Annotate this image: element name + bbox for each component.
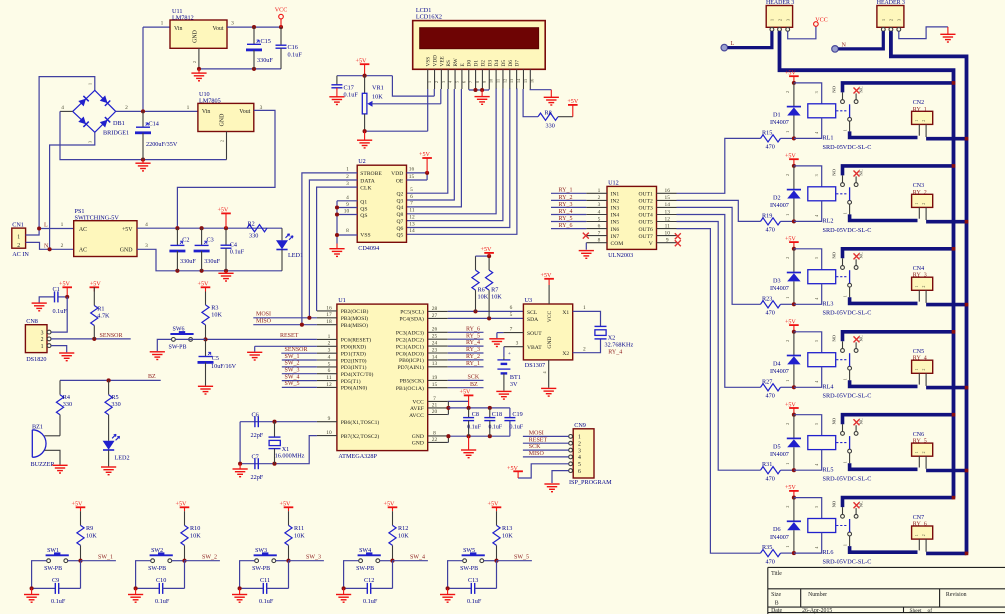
wire LCD pin15 to R8: [523, 89, 538, 117]
junction dots decoupling top: [467, 406, 471, 410]
svg-text:CN3: CN3: [913, 183, 924, 189]
svg-text:3: 3: [578, 448, 581, 454]
svg-text:Revision: Revision: [946, 592, 967, 598]
svg-text:4: 4: [578, 455, 581, 461]
capacitor C11 0.1uF: [240, 587, 264, 589]
svg-text:IN4007: IN4007: [770, 451, 789, 458]
svg-text:470: 470: [766, 393, 775, 400]
svg-text:U2: U2: [358, 158, 366, 165]
net label SW_1 wire: [282, 359, 317, 361]
svg-text:1: 1: [843, 129, 848, 131]
CN9 pin 1: [569, 435, 573, 439]
node L junction: [37, 226, 41, 230]
push button SW5 SW-PB: [462, 552, 485, 562]
svg-text:SW_4: SW_4: [410, 555, 425, 561]
wire coil top RL4: [794, 332, 822, 353]
net label RESET wire at CN9: [523, 442, 569, 444]
svg-text:5: 5: [410, 187, 413, 193]
wire U3 VBAT to battery: [504, 346, 524, 348]
capacitor C1 0.1uF: [58, 296, 67, 298]
svg-text:STROBE: STROBE: [360, 171, 382, 177]
wire CN1 pin1 to PS1 AC L: [26, 229, 74, 236]
svg-text:+5V: +5V: [785, 319, 796, 325]
LCD pin 14 stub: [516, 69, 518, 89]
svg-text:PB3(MOSI): PB3(MOSI): [341, 315, 368, 322]
svg-text:3: 3: [786, 19, 791, 21]
svg-text:RY_4: RY_4: [559, 209, 573, 215]
svg-text:11: 11: [409, 208, 414, 214]
wire VR1 top to LCD VDD: [392, 76, 434, 96]
thick wire CN3 pin2 to N bus: [926, 220, 966, 224]
buzzer BZ1 BUZZER: [32, 430, 46, 458]
net label SENSOR wire at U1: [281, 352, 317, 354]
junction dot RL6 coil top: [792, 496, 796, 500]
thick wire RL2 common to CN3: [850, 214, 918, 220]
thick wire header2 pin2 to N bus: [891, 31, 967, 553]
net label SW_2 wire: [282, 366, 317, 368]
bus junction N RL3: [965, 303, 969, 307]
svg-text:2: 2: [220, 140, 225, 142]
U3 GND pin stub: [548, 360, 550, 388]
wire header2 pin3 to ground: [899, 27, 948, 39]
svg-text:32.768KHz: 32.768KHz: [605, 342, 634, 349]
svg-text:BRIDGE1: BRIDGE1: [103, 130, 129, 137]
svg-text:CN8: CN8: [26, 318, 38, 325]
pin 2 stub U10 GND: [226, 132, 228, 160]
svg-text:4: 4: [145, 222, 148, 228]
capacitor C19 0.1uF: [509, 408, 511, 418]
svg-text:D0: D0: [467, 60, 473, 67]
svg-text:Title: Title: [771, 571, 782, 577]
ground under C17: [336, 88, 338, 97]
resistor R5 330: [108, 380, 110, 394]
svg-text:C10: C10: [156, 577, 166, 584]
wire CN1 pin2 to PS1 AC N: [26, 242, 74, 249]
svg-text:0.1uF: 0.1uF: [53, 308, 68, 315]
LCD pin 3 stub: [440, 69, 442, 89]
svg-text:+5V: +5V: [785, 154, 796, 160]
svg-text:2: 2: [434, 81, 439, 83]
relay RL4 NC contact: [854, 349, 858, 353]
power +5V above VR1: [360, 64, 370, 76]
wire LCD D7 to U2 Q5: [407, 89, 517, 234]
svg-text:330: 330: [249, 232, 258, 239]
svg-text:SCL: SCL: [527, 310, 538, 316]
capacitor C15 330uF: [253, 27, 255, 44]
svg-text:D4: D4: [494, 60, 500, 67]
capacitor C5 10uF/16V: [205, 339, 207, 356]
svg-text:RY_3: RY_3: [913, 273, 927, 279]
connector HEADER 3 left: [766, 6, 792, 28]
svg-text:DS1307: DS1307: [525, 362, 545, 369]
bus junction N RL6: [965, 552, 969, 556]
svg-text:PC0(ADC0): PC0(ADC0): [396, 350, 424, 357]
svg-text:22pF: 22pF: [251, 432, 264, 439]
svg-text:SRD-05VDC-SL-C: SRD-05VDC-SL-C: [823, 144, 872, 151]
connector HEADER 3 right: [877, 6, 904, 28]
bus junction N RL2: [965, 220, 969, 224]
svg-text:10uF/16V: 10uF/16V: [211, 363, 237, 370]
wire SW6 to ground: [157, 339, 171, 351]
relay RL1 NC contact: [854, 100, 858, 104]
no-connect X at RL3 NC: [854, 253, 860, 259]
svg-text:D7: D7: [515, 60, 521, 67]
svg-text:PB4(MISO): PB4(MISO): [341, 322, 368, 329]
no-connect X at RL4 NC: [854, 336, 860, 342]
svg-text:+5V: +5V: [217, 208, 228, 214]
resistor R7 10K pullup: [488, 256, 490, 270]
wire bridge top to L rail: [39, 77, 95, 229]
wire U2 STROBE to U1 PB4: [302, 173, 357, 325]
svg-text:R23: R23: [762, 295, 772, 302]
power +5V at relay RL1: [789, 76, 799, 83]
connector CN3 RY_2: [912, 194, 933, 207]
wire +5V rail from PS1 pin4: [137, 227, 247, 229]
power +5V at R12: [388, 507, 398, 511]
junction dot SCL pullup: [473, 309, 477, 313]
connector CN4 RY_3: [912, 277, 933, 290]
junction dot C10 ground: [134, 586, 138, 590]
crystal X2 32.768KHz: [595, 325, 607, 327]
svg-text:2: 2: [922, 120, 926, 122]
RTC U3 DS1307: [523, 304, 572, 360]
CN9 pin 2: [569, 441, 573, 445]
resistor R11 10K: [288, 511, 290, 525]
net label SW_3 wire: [282, 373, 317, 375]
svg-text:SWITCHING-5V: SWITCHING-5V: [75, 215, 120, 222]
svg-text:5: 5: [578, 462, 581, 468]
wire OUT6 to relay 6: [677, 229, 761, 554]
bridge rectifier DB1 BRIDGE1: [73, 90, 116, 132]
svg-text:Q3: Q3: [396, 198, 403, 204]
wire LCD D5 to U2 Q7: [407, 89, 503, 221]
wire CN9 pin5 to +5V: [518, 464, 569, 478]
svg-text:Q8: Q8: [396, 212, 403, 218]
power +5V on rail: [221, 213, 231, 228]
power +5V at R8: [568, 105, 578, 117]
svg-text:Q7: Q7: [396, 219, 403, 225]
svg-text:RY_1: RY_1: [466, 361, 480, 367]
svg-text:C5: C5: [212, 355, 219, 362]
svg-text:22pF: 22pF: [251, 474, 264, 481]
svg-text:470: 470: [766, 227, 775, 234]
svg-text:+5V: +5V: [419, 152, 430, 158]
ground under LED2: [101, 467, 116, 475]
svg-text:0.1uF: 0.1uF: [467, 598, 482, 605]
junction dots decoupling bottom: [446, 434, 450, 438]
relay RL4 NO contact: [841, 349, 845, 353]
svg-text:PC6(RESET): PC6(RESET): [341, 337, 372, 344]
wire coil top RL3: [794, 249, 822, 270]
resistor R15 470: [761, 135, 781, 142]
diode D4 IN4007: [793, 332, 795, 356]
svg-text:AC: AC: [79, 248, 87, 254]
relay RL3 NO contact: [841, 266, 845, 270]
svg-text:IN5: IN5: [611, 220, 620, 226]
junction dot RL4 coil top: [792, 330, 796, 334]
svg-text:15: 15: [409, 174, 415, 180]
thick wire RL3 NO to L bus: [843, 249, 954, 258]
svg-text:R35: R35: [762, 544, 772, 551]
svg-text:SW_2: SW_2: [202, 555, 217, 561]
svg-text:PB0(ICP1): PB0(ICP1): [399, 357, 424, 364]
junction dots rectifier node: [141, 109, 145, 113]
relay RL2 common pole: [848, 200, 852, 204]
svg-text:4: 4: [346, 195, 349, 201]
thick wire RL4 NO to L bus: [843, 332, 954, 342]
svg-text:NO: NO: [832, 168, 837, 175]
svg-text:RW: RW: [453, 58, 459, 66]
crystal X1 16.000MHz: [274, 422, 276, 437]
svg-text:16.000MHz: 16.000MHz: [275, 453, 305, 460]
svg-text:0.1uF: 0.1uF: [51, 598, 66, 605]
junction dot reset node: [203, 337, 207, 341]
relay RL3 NC contact: [854, 266, 858, 270]
thick wire RL3 common to CN4: [850, 297, 918, 303]
svg-text:2: 2: [578, 441, 581, 447]
svg-text:VR1: VR1: [372, 84, 384, 91]
thick wire CN5 pin2 to N bus: [926, 386, 966, 390]
svg-text:PD7(AIN1): PD7(AIN1): [397, 364, 424, 371]
power VCC top-left: [279, 14, 284, 27]
wire OUT3 to relay 3: [677, 207, 761, 304]
svg-text:9: 9: [482, 81, 487, 83]
svg-text:GND: GND: [192, 29, 198, 43]
push button SW1 SW-PB: [46, 552, 69, 562]
capacitor C8 0.1uF: [468, 408, 470, 418]
junction dot X1 bottom: [272, 462, 276, 466]
net label SW_3 wire: [289, 560, 324, 562]
svg-text:VEE: VEE: [439, 56, 445, 66]
thick wire RL4 common to CN5: [850, 380, 918, 386]
svg-text:2: 2: [346, 174, 349, 180]
svg-text:4.7K: 4.7K: [97, 313, 110, 320]
wire U3 X2 to crystal X2: [573, 339, 601, 353]
svg-text:SW_1: SW_1: [285, 354, 300, 360]
svg-text:C2: C2: [182, 236, 189, 243]
svg-text:R13: R13: [502, 525, 512, 532]
wire U11 output: [227, 26, 281, 28]
junction dot RL2 coil bottom: [792, 219, 796, 223]
ground under C5: [198, 386, 213, 394]
svg-text:C6: C6: [252, 412, 259, 419]
svg-text:HEADER 3: HEADER 3: [877, 0, 905, 6]
LED1: [281, 228, 283, 240]
svg-text:PC5(SCL): PC5(SCL): [400, 309, 424, 316]
svg-text:SW-PB: SW-PB: [148, 566, 166, 572]
svg-text:SW_1: SW_1: [98, 555, 113, 561]
capacitor C17 0.1uF: [336, 76, 338, 85]
LCD pin 1 stub: [427, 69, 429, 89]
svg-text:ULN2003: ULN2003: [608, 252, 633, 259]
diode D5 IN4007: [793, 415, 795, 439]
svg-text:R1: R1: [97, 306, 104, 313]
svg-text:C16: C16: [288, 44, 298, 51]
svg-text:10K: 10K: [502, 532, 513, 539]
svg-text:10K: 10K: [86, 532, 97, 539]
svg-text:SDA: SDA: [527, 317, 538, 323]
svg-text:GND: GND: [547, 336, 553, 348]
svg-text:GND: GND: [120, 248, 134, 254]
svg-text:10: 10: [489, 79, 494, 83]
net label SCK wire: [448, 379, 484, 381]
svg-text:SW6: SW6: [173, 327, 185, 333]
svg-text:C13: C13: [468, 577, 478, 584]
thick wire RL5 NO to L bus: [843, 415, 954, 425]
junction dot X1 top: [272, 420, 276, 424]
microcontroller U1 ATMEGA328P: [337, 304, 428, 451]
net label RY_3 wire at U12: [551, 206, 586, 208]
wire U2 VDD OE to +5V: [407, 172, 428, 174]
thick wire CN6 pin2 to N bus: [926, 469, 966, 473]
svg-text:Vin: Vin: [202, 109, 211, 115]
svg-text:SW4: SW4: [359, 548, 371, 554]
svg-text:C14: C14: [149, 121, 159, 128]
svg-text:NO: NO: [832, 85, 837, 92]
svg-text:PD4(XTC/T0): PD4(XTC/T0): [341, 371, 374, 378]
svg-text:4: 4: [814, 547, 819, 549]
svg-text:PD1(TXD): PD1(TXD): [341, 351, 366, 358]
net label SENSOR wire at CN8: [51, 338, 131, 340]
svg-text:SW_3: SW_3: [285, 368, 300, 374]
svg-text:15: 15: [523, 79, 528, 83]
LCD pin 16 stub: [529, 69, 531, 89]
CN9 pin 5: [569, 462, 573, 466]
svg-text:12: 12: [409, 214, 415, 220]
resistor R2 330: [247, 227, 282, 229]
LCD pin 7 stub: [468, 69, 470, 89]
junction dot C13 ground: [446, 586, 450, 590]
relay RL5 NC contact: [854, 432, 858, 436]
svg-text:4: 4: [814, 464, 819, 466]
resistor R31 470: [761, 467, 781, 474]
svg-text:10K: 10K: [478, 294, 489, 301]
wire U1 pin2 to ground: [255, 345, 317, 347]
svg-text:5: 5: [510, 312, 513, 318]
svg-text:+5V: +5V: [122, 227, 133, 233]
junction dot RL5 coil bottom: [792, 468, 796, 472]
push button SW6 SW-PB: [170, 331, 193, 341]
relay RL1 NO contact: [841, 100, 845, 104]
svg-text:PC1(ADC1): PC1(ADC1): [396, 343, 424, 350]
svg-text:3: 3: [231, 21, 234, 27]
svg-text:SRD-05VDC-SL-C: SRD-05VDC-SL-C: [823, 310, 872, 317]
svg-text:C4: C4: [230, 241, 237, 248]
junction dot pullup top: [487, 254, 491, 258]
svg-text:R7: R7: [491, 287, 498, 294]
ground under U2: [336, 244, 338, 249]
svg-text:8: 8: [475, 81, 480, 83]
svg-text:PC2(ADC2): PC2(ADC2): [396, 337, 424, 344]
junction dots D1 D2: [473, 88, 477, 92]
junction dot RL1 coil bottom: [792, 136, 796, 140]
junction dot U2 VDD: [425, 171, 429, 175]
net label SW_2 wire: [185, 560, 220, 562]
thick wire RL2 NO to L bus: [843, 166, 954, 176]
svg-text:BZ: BZ: [148, 374, 156, 380]
power supply module PS1 SWITCHING-5V: [74, 221, 137, 257]
svg-text:RY_6: RY_6: [913, 522, 927, 528]
ground at CN8: [59, 353, 74, 361]
wire SW1 left leg: [32, 561, 47, 589]
ground at U12 COM: [579, 251, 594, 259]
svg-text:RL3: RL3: [823, 300, 834, 307]
junction dot SW3 node: [286, 559, 290, 563]
thick wire header1 pin2 to L bus: [780, 31, 954, 497]
wire ground rail under U11: [199, 68, 281, 70]
svg-text:SW_3: SW_3: [306, 555, 321, 561]
svg-text:AC: AC: [79, 227, 87, 233]
thick wire RL5 common to CN6: [850, 463, 918, 469]
bridge diode SE: [100, 117, 110, 127]
bridge diode NW: [78, 96, 88, 106]
svg-text:QS: QS: [360, 213, 367, 219]
wire SW4 node down: [392, 561, 394, 589]
svg-text:330: 330: [63, 401, 72, 408]
svg-text:2: 2: [777, 19, 782, 21]
svg-text:RY_5: RY_5: [466, 333, 480, 339]
svg-text:+: +: [508, 351, 511, 357]
ground under U11: [198, 69, 200, 73]
power +5V at U1 VCC: [464, 395, 474, 408]
no-connect X at OUT7: [675, 233, 681, 239]
svg-text:RY_1: RY_1: [913, 107, 927, 113]
svg-text:D6: D6: [773, 526, 781, 533]
LED2: [103, 434, 120, 450]
no-connect X at IN7: [583, 233, 589, 239]
svg-text:C11: C11: [260, 577, 270, 584]
ground at SW1: [31, 588, 33, 594]
net label RY_6 wire at U12: [551, 228, 586, 230]
svg-text:3: 3: [814, 506, 819, 508]
ground under C8: [468, 436, 470, 450]
svg-text:1: 1: [785, 546, 790, 548]
svg-text:SW-PB: SW-PB: [44, 566, 62, 572]
bus junction L RL4: [952, 330, 956, 334]
junction dot C12 ground: [342, 586, 346, 590]
svg-text:2: 2: [785, 91, 790, 93]
LCD pin 10 stub: [488, 69, 490, 89]
svg-text:CN2: CN2: [913, 100, 924, 106]
net label SW_4 wire: [282, 380, 317, 382]
ground at SW4: [343, 588, 345, 594]
svg-text:SW_2: SW_2: [285, 361, 300, 367]
wire U2 Q1/QS/QS/VSS common: [337, 200, 357, 202]
svg-text:6: 6: [410, 194, 413, 200]
svg-text:GND: GND: [412, 441, 424, 447]
svg-text:PB2(OC1B): PB2(OC1B): [341, 308, 369, 315]
svg-text:SENSOR: SENSOR: [285, 347, 308, 353]
title block frame: [768, 567, 1005, 614]
ground under U3: [541, 388, 556, 396]
relay coil RL1: [808, 104, 836, 118]
svg-text:X2: X2: [562, 351, 569, 357]
wire header1 pin3 to VCC: [788, 26, 816, 39]
svg-text:ISP_PROGRAM: ISP_PROGRAM: [569, 479, 612, 486]
wire coil top RL6: [794, 498, 822, 519]
svg-text:X2: X2: [608, 335, 616, 342]
connector CN9 ISP_PROGRAM: [573, 429, 594, 478]
svg-text:IN7: IN7: [611, 234, 620, 240]
junction dot C11 ground: [238, 586, 242, 590]
relay RL6 NC contact: [854, 514, 858, 518]
resistor R19 470: [761, 218, 781, 225]
svg-text:SW-PB: SW-PB: [252, 566, 270, 572]
net label RY_1 wire at U12: [551, 192, 586, 194]
svg-text:VDD: VDD: [433, 55, 439, 67]
svg-text:330uF: 330uF: [257, 57, 273, 64]
svg-text:LM7805: LM7805: [199, 98, 221, 105]
